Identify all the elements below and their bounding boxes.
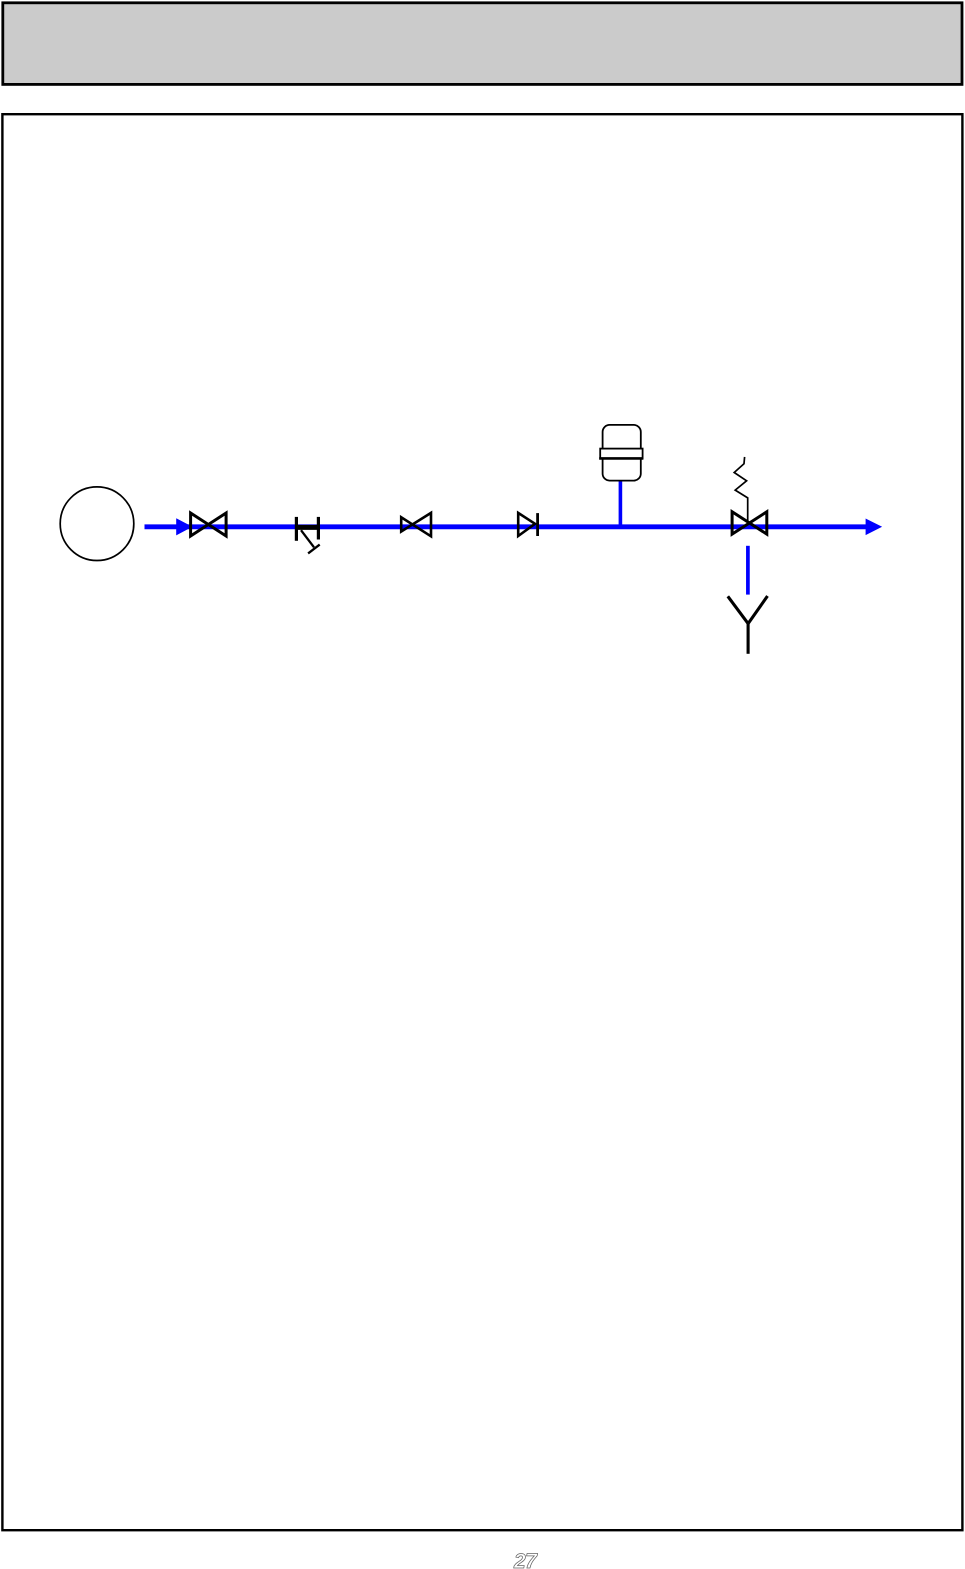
valve V2 (flanged valve with lever) — [295, 517, 320, 554]
check valve CV1 — [518, 513, 535, 536]
valve V3 (gate valve) — [401, 513, 431, 536]
flow arrow 1 — [177, 520, 190, 534]
expansion tank T1 — [603, 425, 641, 481]
pipe branch to tank — [619, 481, 623, 529]
pipe (main header line) — [145, 524, 867, 529]
relief valve RV1 — [732, 512, 767, 534]
header bar — [3, 3, 962, 85]
valve V1 (gate valve) — [191, 513, 227, 536]
flow arrow out — [867, 520, 880, 533]
svg-text:27: 27 — [513, 1550, 538, 1569]
vent to atmosphere Y1 — [728, 596, 768, 654]
spring of relief valve — [734, 457, 748, 521]
pipe to vent — [746, 546, 750, 595]
pump P1 (source circle) — [60, 487, 134, 561]
